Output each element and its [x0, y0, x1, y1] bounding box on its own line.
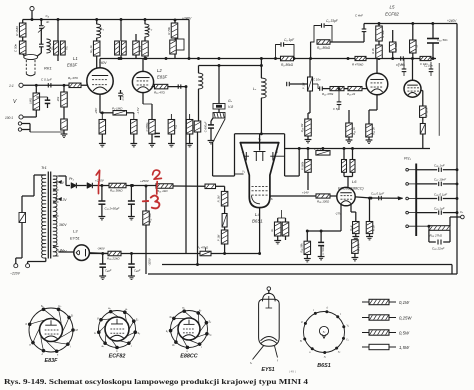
svg-text:~220V: ~220V: [10, 272, 21, 276]
svg-text:P 47k: P 47k: [314, 147, 322, 151]
svg-text:R₃₆ 100Ω: R₃₆ 100Ω: [317, 200, 330, 204]
svg-text:a₁: a₁: [300, 339, 302, 342]
svg-text:aₜ: aₜ: [125, 308, 127, 311]
svg-text:Rₓ: Rₓ: [270, 229, 274, 232]
svg-text:0,5W: 0,5W: [399, 330, 410, 335]
svg-text:ECF82: ECF82: [385, 12, 399, 17]
svg-text:Prz₁: Prz₁: [404, 157, 412, 161]
svg-text:S₃: S₃: [137, 331, 140, 335]
svg-text:P₃ 47kΩ: P₃ 47kΩ: [197, 246, 209, 250]
svg-text:C 10n: C 10n: [420, 62, 428, 66]
svg-text:C 0.1: C 0.1: [121, 93, 125, 100]
svg-text:E83F: E83F: [67, 63, 77, 68]
svg-text:C 1n: C 1n: [398, 62, 404, 66]
svg-text:R₄₇k: R₄₇k: [349, 225, 353, 231]
svg-text:R 560k: R 560k: [301, 161, 305, 170]
svg-text:C 5p: C 5p: [333, 107, 339, 111]
svg-text:P₁-1MΩ: P₁-1MΩ: [112, 107, 123, 111]
svg-text:R₂₃ 2k: R₂₃ 2k: [347, 92, 356, 96]
svg-text:R₂₄ 1M: R₂₄ 1M: [300, 123, 304, 132]
svg-text:R₁₀ 80kΩ: R₁₀ 80kΩ: [317, 46, 331, 50]
svg-text:ECC85(E88CC): ECC85(E88CC): [338, 187, 364, 191]
svg-text:R₃₁ 1kΩ: R₃₁ 1kΩ: [157, 189, 168, 193]
svg-text:C₃₀ 22nF: C₃₀ 22nF: [432, 247, 444, 251]
svg-text:RK1: RK1: [44, 66, 52, 71]
svg-text:6.3V: 6.3V: [60, 198, 67, 202]
svg-text:EY51: EY51: [261, 367, 274, 373]
svg-text:S: S: [271, 197, 273, 201]
svg-text:R 7k: R 7k: [138, 45, 142, 52]
svg-text:EY51: EY51: [70, 236, 80, 241]
svg-text:C-680μF: C-680μF: [204, 121, 208, 132]
svg-text:R₉ 80kΩ: R₉ 80kΩ: [281, 63, 294, 67]
svg-text:x₁: x₁: [323, 355, 326, 358]
svg-text:| 49 |: | 49 |: [289, 370, 296, 374]
svg-text:-340V: -340V: [97, 247, 106, 251]
svg-text:+250V: +250V: [140, 179, 150, 183]
svg-text:C₂₆ 1nF: C₂₆ 1nF: [434, 164, 445, 168]
svg-text:+240V: +240V: [447, 19, 457, 23]
svg-text:R 70k: R 70k: [167, 27, 171, 35]
svg-text:R₃₂ 15k: R₃₂ 15k: [148, 213, 152, 223]
svg-text:R 1M: R 1M: [372, 224, 376, 231]
svg-text:R₃₅ 22kΩ: R₃₅ 22kΩ: [107, 257, 120, 261]
svg-text:0,1W: 0,1W: [399, 300, 410, 305]
svg-text:a₂: a₂: [323, 331, 325, 334]
svg-text:R 1M: R 1M: [217, 195, 221, 202]
svg-text:E83F: E83F: [157, 75, 167, 80]
svg-text:C₂₈ 0.1μF: C₂₈ 0.1μF: [434, 192, 447, 196]
svg-text:V-8: V-8: [228, 105, 233, 109]
svg-text:Ł₁: Ł₁: [101, 27, 104, 31]
svg-text:L1: L1: [73, 56, 78, 61]
svg-text:+14V: +14V: [302, 191, 310, 195]
svg-text:E88CC: E88CC: [180, 354, 197, 360]
svg-text:4n: 4n: [46, 20, 50, 24]
svg-text:k₂: k₂: [209, 333, 211, 337]
svg-text:R 1MΩ: R 1MΩ: [15, 25, 19, 35]
svg-text:C 50nF: C 50nF: [321, 245, 325, 254]
svg-text:1MΩ: 1MΩ: [29, 97, 33, 104]
svg-text:R₂₅ 1k: R₂₅ 1k: [352, 127, 356, 135]
svg-text:Y₂: Y₂: [346, 338, 349, 342]
svg-text:C₃₉ 0.1μF: C₃₉ 0.1μF: [371, 191, 384, 195]
svg-text:ECF82: ECF82: [109, 354, 126, 360]
svg-text:R₂₆ 2k: R₂₆ 2k: [372, 127, 376, 135]
svg-text:C₉ 33pF: C₉ 33pF: [326, 19, 339, 23]
svg-text:R 27k: R 27k: [357, 243, 361, 251]
svg-text:100:1: 100:1: [5, 116, 13, 120]
svg-text:L5: L5: [390, 5, 395, 10]
svg-text:-325V: -325V: [148, 257, 152, 266]
svg-text:R₃₀ 36kΩ: R₃₀ 36kΩ: [110, 189, 123, 193]
svg-text:+240V: +240V: [182, 17, 192, 21]
svg-text:Y₁: Y₁: [346, 324, 349, 328]
svg-text:R₂₂ 470k: R₂₂ 470k: [322, 92, 334, 96]
svg-text:B6S1: B6S1: [252, 219, 263, 224]
svg-text:R₅ 1k: R₅ 1k: [89, 45, 93, 53]
svg-text:Rys. 9-149. Schemat oscylosko: Rys. 9-149. Schemat oscyloskopu lampoweg…: [4, 377, 308, 386]
svg-text:C 4nF: C 4nF: [355, 14, 363, 18]
svg-text:C₈ 1pF: C₈ 1pF: [284, 38, 295, 42]
svg-text:Tr1: Tr1: [41, 165, 47, 170]
svg-text:R₄₀ 56k: R₄₀ 56k: [300, 243, 304, 253]
svg-text:P 1M: P 1M: [302, 82, 306, 89]
svg-text:g₁: g₁: [172, 344, 174, 347]
svg-text:kₜ: kₜ: [94, 331, 96, 335]
svg-text:L6: L6: [352, 179, 357, 184]
svg-text:B6S1: B6S1: [317, 363, 331, 369]
svg-text:a₁: a₁: [182, 307, 184, 310]
svg-text:S₂: S₂: [208, 319, 211, 323]
svg-text:C 10n: C 10n: [313, 78, 321, 82]
svg-text:C₃₁ 2×50μF: C₃₁ 2×50μF: [105, 207, 120, 211]
svg-text:L3: L3: [73, 229, 78, 234]
svg-text:C₅₀ 50n: C₅₀ 50n: [437, 38, 448, 42]
svg-text:a₂: a₂: [199, 309, 201, 312]
svg-text:R 47k: R 47k: [394, 43, 398, 51]
svg-text:g₂: g₂: [170, 315, 172, 318]
svg-text:R 4k: R 4k: [371, 48, 375, 54]
svg-text:R 40k: R 40k: [381, 30, 385, 38]
svg-text:R₅₀ 27kΩ: R₅₀ 27kΩ: [430, 234, 443, 238]
svg-text:x₂: x₂: [337, 350, 340, 353]
svg-text:1:1: 1:1: [9, 84, 14, 88]
svg-text:360V: 360V: [59, 223, 67, 227]
svg-text:R 120k: R 120k: [425, 107, 429, 116]
svg-text:k₁: k₁: [166, 329, 168, 333]
svg-text:0,25W: 0,25W: [399, 315, 412, 320]
svg-text:X₁: X₁: [241, 150, 245, 154]
svg-text:L2: L2: [157, 68, 162, 73]
svg-text:C₄μF: C₄μF: [134, 269, 141, 273]
svg-text:R₁₀ 47Ω: R₁₀ 47Ω: [154, 91, 166, 95]
svg-text:E83F: E83F: [45, 358, 59, 364]
svg-text:1,5W: 1,5W: [399, 345, 410, 350]
svg-text:C 50n: C 50n: [14, 44, 18, 53]
svg-text:R₉ 47Ω: R₉ 47Ω: [68, 76, 79, 80]
svg-text:C₄μF: C₄μF: [105, 269, 112, 273]
svg-text:Y₁: Y₁: [242, 170, 245, 174]
svg-text:Gₙ: Gₙ: [228, 99, 233, 103]
svg-text:C 680p: C 680p: [145, 122, 149, 131]
svg-text:20k: 20k: [56, 96, 60, 102]
svg-text:C₂₇ 10nF: C₂₇ 10nF: [434, 178, 446, 182]
svg-text:-1.5V: -1.5V: [136, 107, 140, 115]
svg-text:C₂₉ 1μF: C₂₉ 1μF: [434, 206, 445, 210]
svg-text:C 0.1μF: C 0.1μF: [41, 77, 52, 81]
svg-text:P 1M: P 1M: [217, 234, 221, 241]
svg-text:R 470kΩ: R 470kΩ: [352, 63, 364, 67]
